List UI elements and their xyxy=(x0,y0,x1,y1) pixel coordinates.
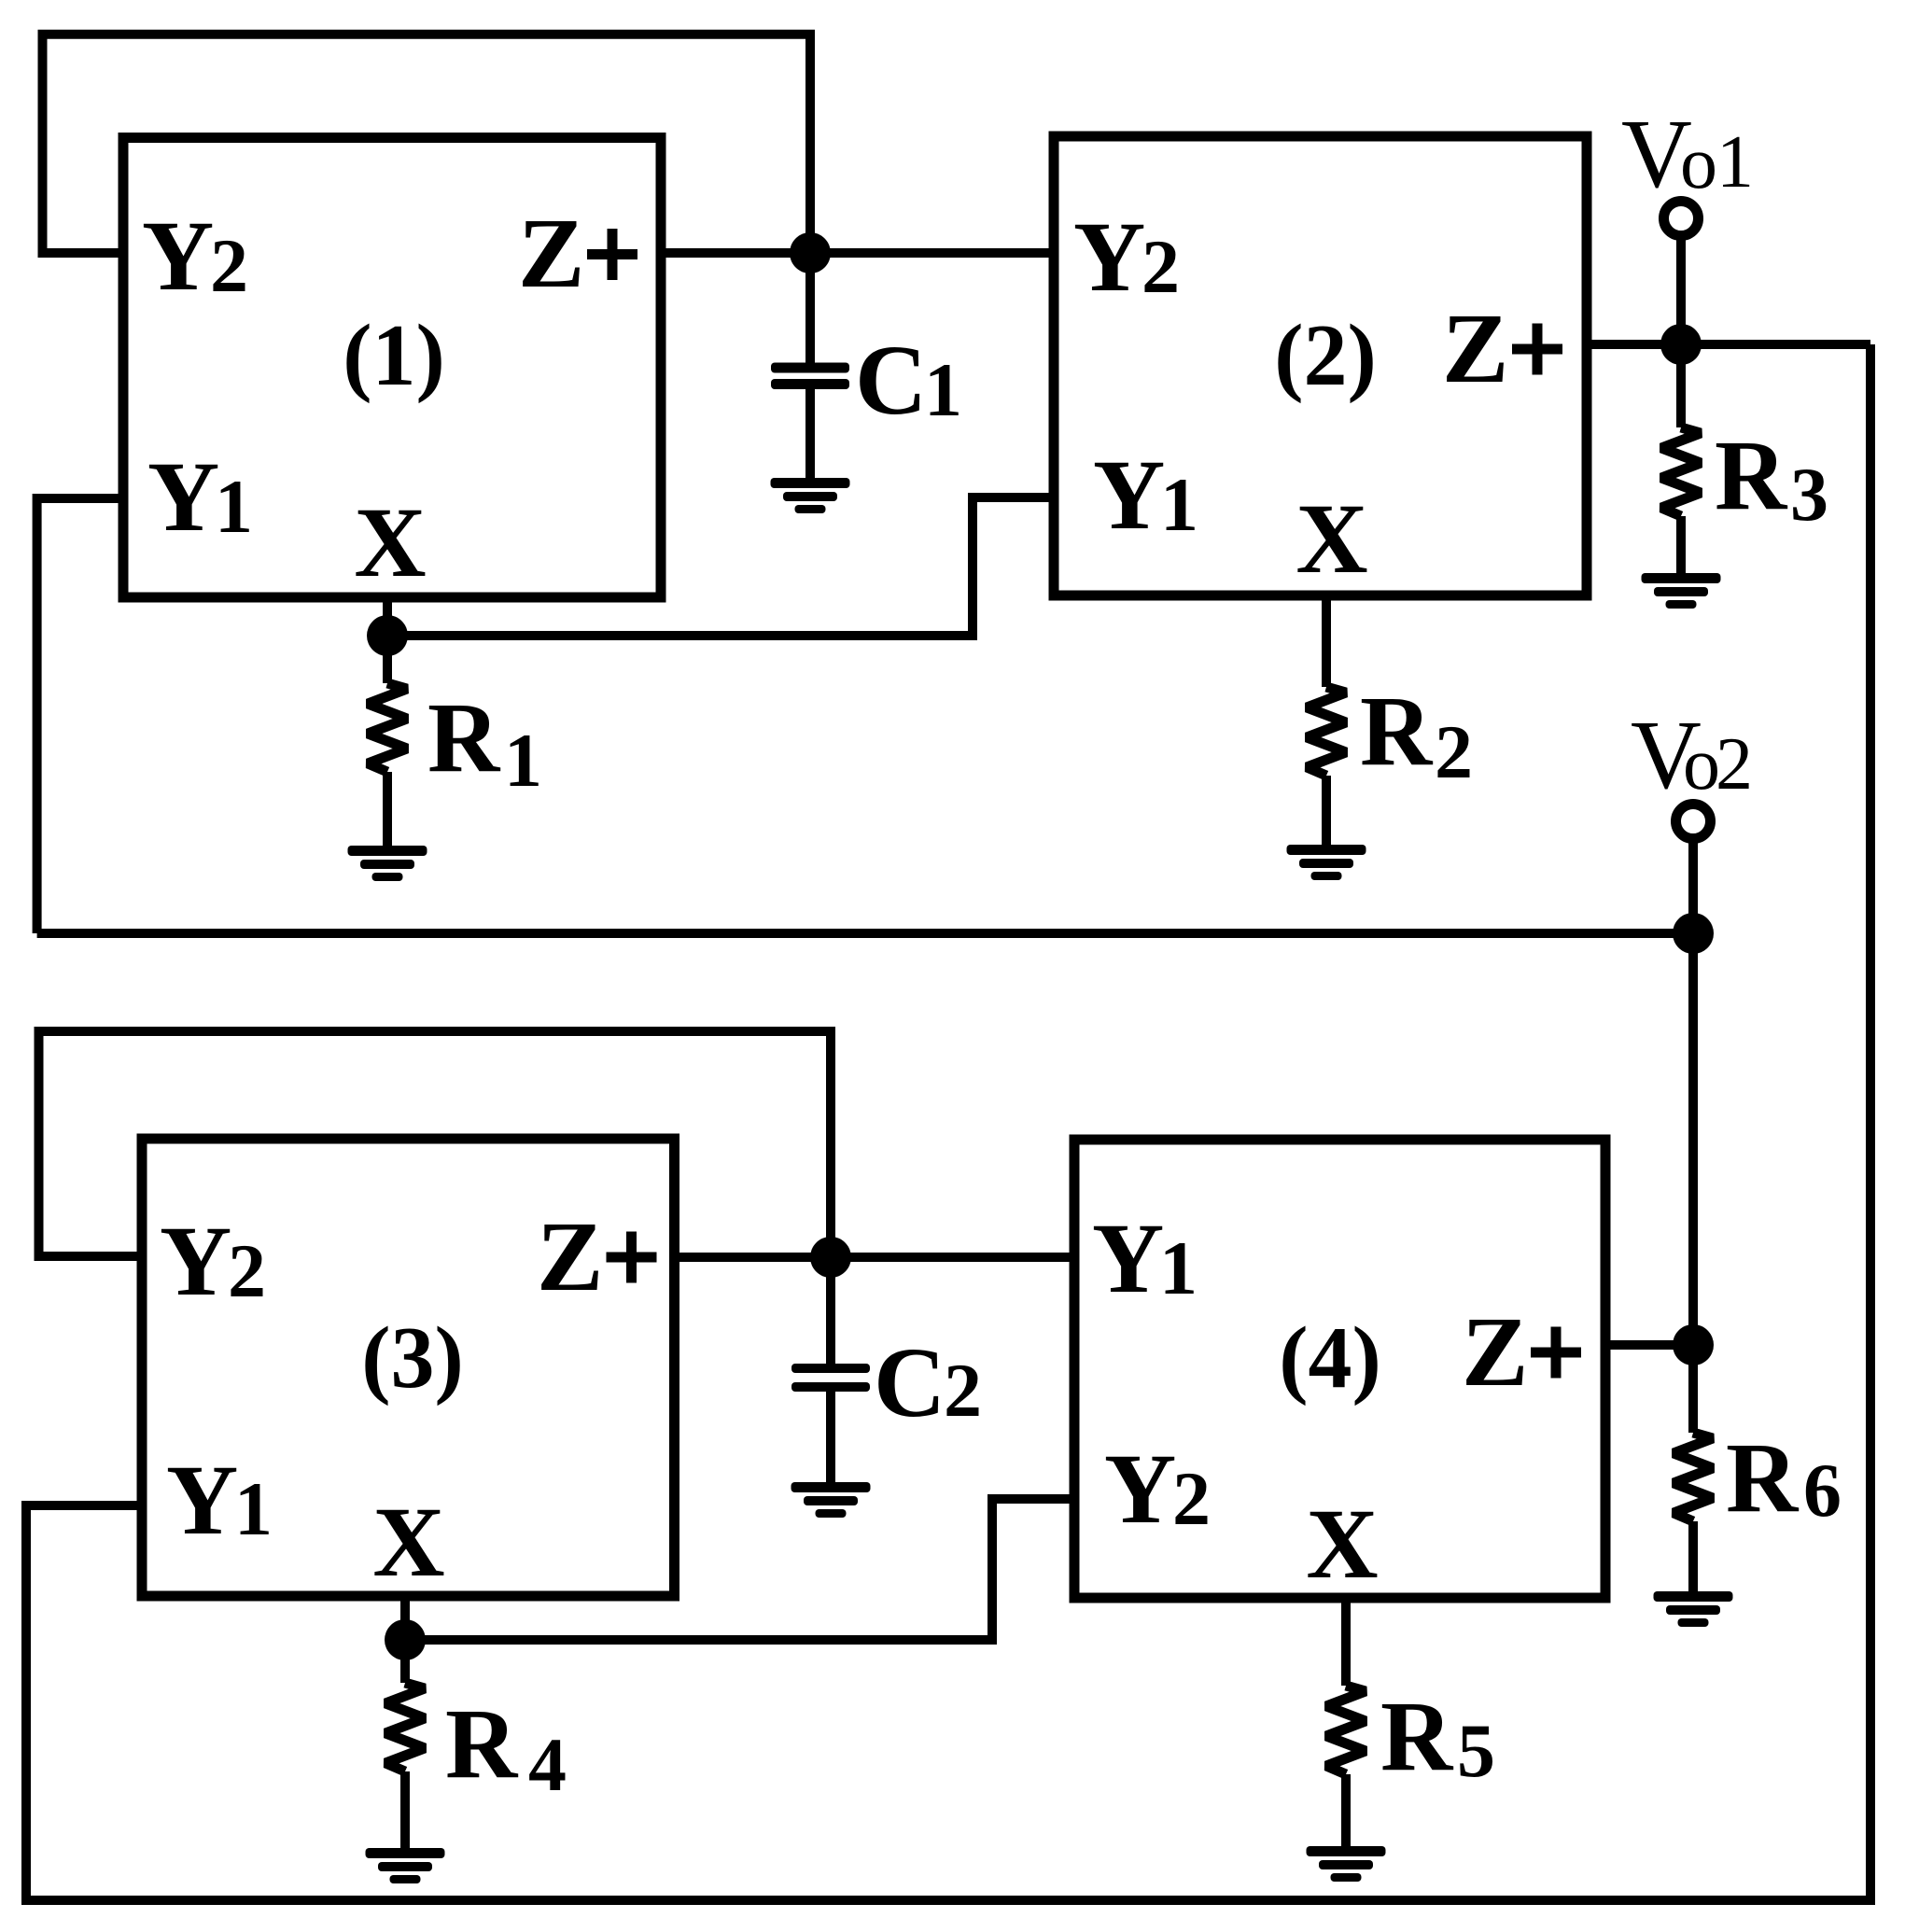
wire Y1 block1 to left vertical xyxy=(37,498,123,933)
svg-text:6: 6 xyxy=(1803,1448,1842,1533)
block (3) box xyxy=(142,1139,675,1596)
svg-text:Y: Y xyxy=(166,1446,238,1556)
svg-text:1: 1 xyxy=(1716,121,1754,203)
terminal Vo1 stem xyxy=(1676,239,1686,344)
wire feedback loop Z+ to Y2 of block 3 xyxy=(39,1031,832,1257)
svg-text:C: C xyxy=(874,1328,945,1438)
svg-text:Y: Y xyxy=(160,1207,231,1317)
svg-text:2: 2 xyxy=(228,1228,266,1313)
svg-text:Z: Z xyxy=(518,199,584,309)
junction node Vo2 xyxy=(1673,913,1714,954)
svg-text:2: 2 xyxy=(1172,1456,1211,1541)
svg-text:X: X xyxy=(1306,1490,1378,1600)
junction node X block3 xyxy=(385,1619,426,1660)
svg-text:Y: Y xyxy=(142,202,214,312)
svg-text:(4): (4) xyxy=(1279,1309,1381,1407)
svg-text:5: 5 xyxy=(1457,1708,1495,1793)
svg-text:1: 1 xyxy=(504,718,542,803)
resistor R1 xyxy=(383,636,392,683)
svg-text:(1): (1) xyxy=(343,307,445,404)
capacitor C1 lower wire xyxy=(805,389,815,483)
junction node X block1 xyxy=(367,615,408,656)
svg-text:Z: Z xyxy=(537,1202,603,1312)
capacitor C2 lower wire xyxy=(826,1392,835,1487)
svg-text:1: 1 xyxy=(234,1466,273,1551)
wire Vo2 down to Z+ block4 and R6 xyxy=(1688,842,1698,1433)
svg-text:2: 2 xyxy=(1435,709,1473,794)
wire Z+ block3 to Y1 block4 xyxy=(675,1253,1075,1262)
svg-text:2: 2 xyxy=(1142,224,1180,309)
svg-text:2: 2 xyxy=(210,223,248,308)
svg-text:1: 1 xyxy=(924,347,962,432)
resistor R6 xyxy=(1674,1433,1713,1521)
wire X pin stem block3 xyxy=(400,1596,410,1640)
ground below R5 xyxy=(1307,1846,1386,1882)
ground below R4 xyxy=(366,1848,445,1883)
ground below C2 xyxy=(791,1482,871,1518)
svg-text:R: R xyxy=(1380,1682,1454,1792)
svg-text:R: R xyxy=(427,683,501,793)
svg-text:4: 4 xyxy=(528,1722,567,1807)
wire X block3 to Y2 block4 xyxy=(405,1499,1074,1640)
svg-text:1: 1 xyxy=(1159,1225,1198,1310)
svg-text:(3): (3) xyxy=(361,1309,464,1407)
ground below R1 xyxy=(348,846,427,881)
svg-text:2: 2 xyxy=(944,1348,982,1433)
svg-text:C: C xyxy=(855,326,927,436)
ground below C1 xyxy=(771,478,850,513)
ground below R6 xyxy=(1654,1591,1733,1627)
svg-text:Z: Z xyxy=(1442,294,1508,404)
svg-text:Z: Z xyxy=(1462,1297,1528,1407)
wire node Vo2 horizontal xyxy=(37,929,1693,938)
wire right frame / bottom frame / Y1 block3 xyxy=(26,344,1870,1900)
junction node Z+ block4 xyxy=(1673,1324,1714,1365)
wire feedback loop Z+ to Y2 of block 1 xyxy=(43,35,811,253)
svg-text:1: 1 xyxy=(1160,462,1198,547)
svg-text:Y: Y xyxy=(1093,441,1165,551)
junction node C1 / Z+ block1 xyxy=(790,232,831,273)
wire X pin stem block2 xyxy=(1322,595,1331,687)
wire X pin stem block4 xyxy=(1341,1598,1351,1686)
terminal Vo1 circle xyxy=(1664,202,1699,236)
junction node Vo1 / Z+ block2 xyxy=(1660,324,1702,365)
svg-text:Y: Y xyxy=(147,442,219,553)
capacitor C1 upper wire xyxy=(805,253,815,363)
svg-text:Y: Y xyxy=(1104,1435,1176,1545)
resistor R5 xyxy=(1326,1686,1366,1774)
svg-text:1: 1 xyxy=(215,464,253,549)
capacitor C1 plates xyxy=(771,363,849,390)
capacitor C2 upper wire xyxy=(826,1257,835,1365)
wire X pin stem block1 xyxy=(383,597,392,636)
junction node C2 / Z+ block3 xyxy=(810,1237,851,1278)
svg-text:R: R xyxy=(445,1689,519,1799)
svg-text:2: 2 xyxy=(1716,723,1753,805)
svg-text:o: o xyxy=(1680,122,1717,204)
capacitor C2 plates xyxy=(791,1364,870,1392)
svg-text:X: X xyxy=(372,1488,444,1598)
svg-text:3: 3 xyxy=(1790,452,1828,537)
svg-text:X: X xyxy=(354,488,426,598)
block (2) box xyxy=(1054,136,1587,595)
svg-text:Y: Y xyxy=(1073,203,1145,313)
resistor R3 xyxy=(1676,344,1686,427)
wire Z+ block4 to Vo2 vertical xyxy=(1605,1340,1693,1350)
resistor R4 xyxy=(400,1640,410,1683)
block (4) box xyxy=(1074,1140,1605,1598)
svg-text:R: R xyxy=(1715,421,1788,531)
svg-text:X: X xyxy=(1296,484,1367,595)
svg-text:R: R xyxy=(1360,677,1434,787)
resistor R2 xyxy=(1307,687,1346,776)
wire Z+ block1 to Y2 block2 xyxy=(661,248,1054,258)
terminal Vo2 circle xyxy=(1676,805,1711,839)
ground below R3 xyxy=(1642,573,1721,609)
ground below R2 xyxy=(1287,845,1366,880)
wire Z+ block2 to right frame xyxy=(1587,340,1870,349)
block (1) box xyxy=(123,138,661,598)
svg-text:Y: Y xyxy=(1092,1204,1164,1314)
wire X block1 to Y1 block2 xyxy=(387,497,1054,636)
svg-text:(2): (2) xyxy=(1274,307,1377,404)
svg-text:R: R xyxy=(1726,1423,1800,1533)
svg-text:o: o xyxy=(1683,723,1720,805)
